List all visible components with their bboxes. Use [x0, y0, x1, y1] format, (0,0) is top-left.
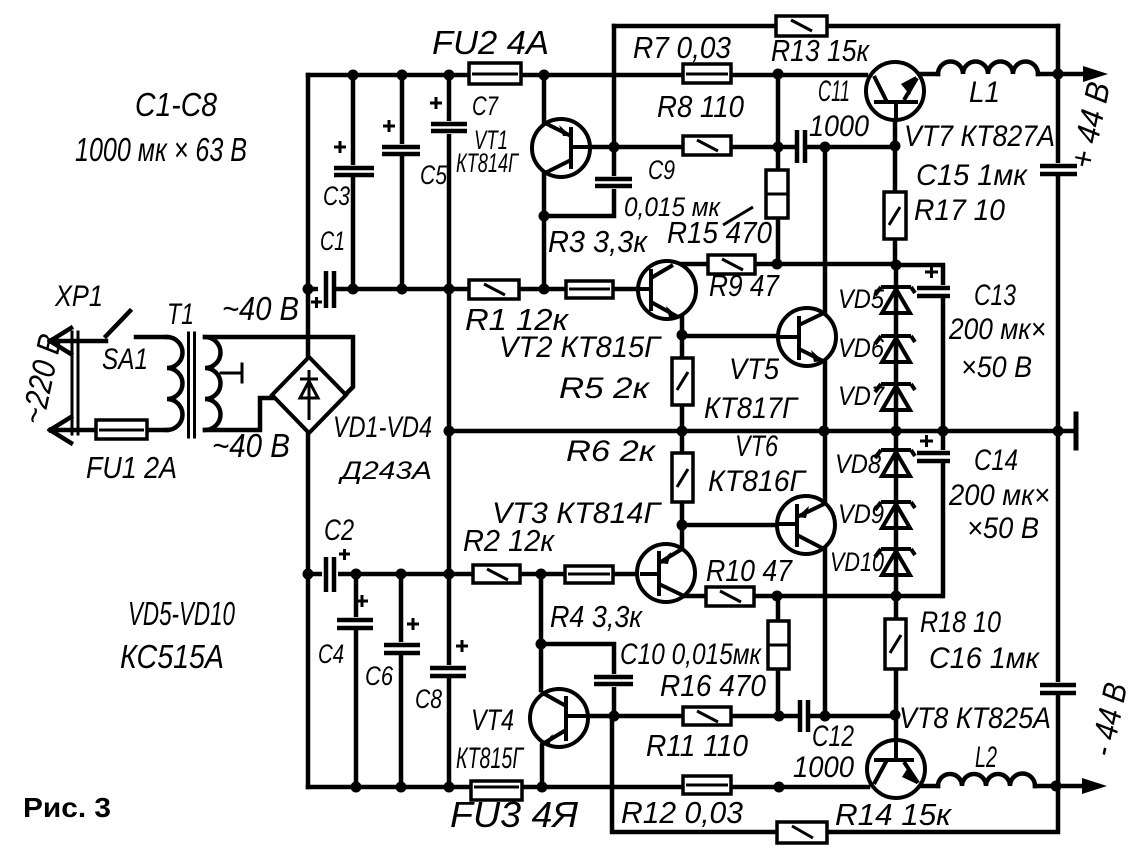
svg-text:R14 15к: R14 15к: [835, 797, 952, 832]
svg-text:VD5-VD10: VD5-VD10: [128, 595, 235, 632]
svg-text:С2: С2: [324, 514, 354, 547]
svg-text:FU2 4А: FU2 4А: [432, 24, 549, 61]
svg-text:R8 110: R8 110: [657, 89, 744, 124]
svg-text:КТ816Г: КТ816Г: [708, 465, 808, 498]
svg-text:VT6: VT6: [735, 430, 778, 463]
svg-text:R17 10: R17 10: [914, 194, 1005, 227]
svg-text:R5 2к: R5 2к: [559, 372, 651, 405]
svg-text:С11: С11: [818, 75, 850, 108]
svg-text:VD6: VD6: [838, 333, 885, 363]
svg-text:КТ815Г: КТ815Г: [456, 742, 525, 775]
svg-text:R4 3,3к: R4 3,3к: [550, 599, 643, 634]
svg-text:С1: С1: [320, 226, 345, 256]
svg-text:R13 15к: R13 15к: [771, 33, 870, 68]
svg-text:FU3 4Я: FU3 4Я: [450, 794, 578, 835]
svg-text:С15 1мк: С15 1мк: [916, 159, 1029, 192]
svg-text:R11 110: R11 110: [646, 728, 748, 763]
svg-text:Д243А: Д243А: [337, 457, 432, 485]
svg-text:С4: С4: [318, 639, 344, 669]
svg-text:R3 3,3к: R3 3,3к: [548, 224, 648, 259]
svg-text:С5: С5: [420, 160, 448, 190]
svg-text:С14: С14: [974, 444, 1018, 477]
svg-text:Т1: Т1: [167, 298, 194, 331]
svg-text:~40 В: ~40 В: [212, 427, 290, 464]
svg-text:R9 47: R9 47: [709, 268, 780, 303]
svg-text:R2 12к: R2 12к: [463, 523, 555, 558]
svg-text:ХР1: ХР1: [54, 280, 103, 313]
svg-text:R18 10: R18 10: [920, 606, 1001, 639]
svg-text:С16 1мк: С16 1мк: [929, 642, 1041, 675]
svg-text:VD7: VD7: [838, 381, 885, 411]
svg-text:R6 2к: R6 2к: [566, 435, 657, 468]
svg-text:С12: С12: [812, 720, 854, 753]
svg-text:SА1: SА1: [102, 343, 148, 376]
svg-text:1000 мк × 63 В: 1000 мк × 63 В: [75, 131, 247, 168]
svg-text:1000: 1000: [793, 751, 854, 784]
svg-text:VT2 КТ815Г: VT2 КТ815Г: [499, 331, 663, 364]
svg-text:VT7 КТ827А: VT7 КТ827А: [904, 120, 1055, 153]
svg-text:С1-С8: С1-С8: [135, 86, 218, 123]
svg-text:VD1-VD4: VD1-VD4: [333, 411, 432, 444]
svg-text:С7: С7: [472, 91, 499, 121]
svg-text:R10 47: R10 47: [706, 553, 794, 588]
svg-text:С9: С9: [648, 155, 675, 185]
svg-text:С13: С13: [974, 279, 1016, 312]
svg-text:VT4: VT4: [471, 704, 514, 737]
svg-text:VT8 КТ825А: VT8 КТ825А: [899, 702, 1051, 735]
svg-text:КС515А: КС515А: [120, 638, 224, 675]
svg-text:200 мк×: 200 мк×: [948, 313, 1046, 346]
svg-text:R7 0,03: R7 0,03: [633, 30, 731, 65]
svg-text:~40 В: ~40 В: [222, 290, 299, 327]
svg-text:L2: L2: [975, 741, 997, 774]
svg-text:L1: L1: [969, 76, 1000, 109]
svg-text:VD9: VD9: [838, 499, 884, 529]
svg-text:R15 470: R15 470: [667, 215, 772, 250]
svg-text:VD8: VD8: [835, 449, 881, 479]
svg-text:R12 0,03: R12 0,03: [621, 795, 743, 830]
svg-text:КТ814Г: КТ814Г: [456, 148, 520, 178]
svg-text:VD5: VD5: [838, 284, 885, 314]
svg-text:R16 470: R16 470: [660, 668, 766, 703]
svg-text:С10 0,015мк: С10 0,015мк: [620, 638, 762, 671]
svg-text:VT5: VT5: [729, 353, 779, 386]
svg-text:VD10: VD10: [830, 547, 884, 577]
svg-text:1000: 1000: [809, 110, 869, 143]
svg-text:Рис. 3: Рис. 3: [23, 792, 111, 823]
svg-text:FU1 2А: FU1 2А: [86, 450, 177, 485]
svg-text:С3: С3: [323, 181, 350, 211]
svg-text:С6: С6: [365, 661, 394, 691]
svg-text:×50 В: ×50 В: [967, 512, 1039, 545]
svg-text:×50 В: ×50 В: [961, 351, 1032, 384]
svg-text:200 мк×: 200 мк×: [948, 479, 1050, 512]
svg-text:С8: С8: [415, 684, 442, 714]
svg-text:КТ817Г: КТ817Г: [704, 392, 799, 425]
